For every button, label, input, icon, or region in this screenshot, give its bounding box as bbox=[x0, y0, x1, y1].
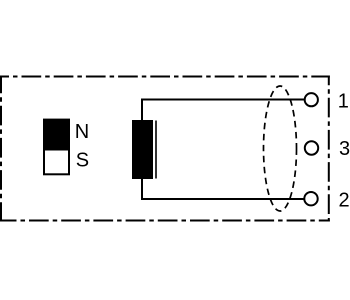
svg-text:S: S bbox=[76, 150, 89, 172]
terminal 2 bbox=[304, 192, 317, 205]
enclosure top edge bbox=[1, 76, 330, 78]
svg-text:3: 3 bbox=[339, 138, 350, 160]
magnet S pole (white box) bbox=[44, 150, 69, 175]
terminal 1 bbox=[305, 93, 318, 106]
enclosure (sensor housing, chain line) bbox=[1, 76, 330, 222]
core line bbox=[155, 121, 157, 179]
terminal 3 bbox=[305, 141, 318, 154]
enclosure left edge bbox=[0, 76, 2, 222]
magnet N pole (black box) bbox=[43, 119, 70, 150]
svg-text:N: N bbox=[75, 121, 89, 143]
svg-text:1: 1 bbox=[338, 90, 349, 112]
wire coil-bottom to bend bbox=[142, 179, 304, 199]
wire coil-top to bend bbox=[142, 100, 305, 121]
connector boundary (dashed ellipse) bbox=[264, 86, 297, 211]
coil L (black block) bbox=[132, 120, 153, 179]
svg-text:2: 2 bbox=[339, 189, 350, 211]
enclosure bottom edge bbox=[1, 220, 330, 222]
enclosure right edge bbox=[328, 76, 330, 222]
